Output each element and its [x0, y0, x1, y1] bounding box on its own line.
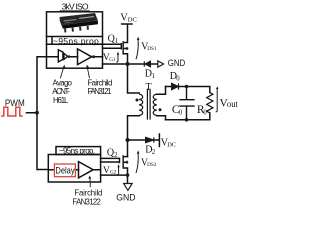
svg-text:2: 2: [152, 149, 156, 156]
svg-text:H61L: H61L: [53, 96, 69, 105]
svg-text:1: 1: [152, 73, 155, 80]
svg-text:FAN3122: FAN3122: [72, 198, 101, 207]
svg-text:G1: G1: [109, 57, 116, 63]
svg-text:DC: DC: [167, 141, 176, 148]
svg-text:DS1: DS1: [147, 46, 157, 52]
svg-text:~95ns prop.: ~95ns prop.: [53, 36, 102, 46]
svg-text:3kV ISO: 3kV ISO: [62, 1, 89, 11]
svg-text:0: 0: [203, 109, 207, 116]
svg-text:Delay: Delay: [55, 165, 74, 176]
svg-text:DC: DC: [128, 17, 138, 24]
svg-text:GND: GND: [168, 58, 186, 68]
svg-text:ACNT-: ACNT-: [52, 87, 70, 96]
svg-text:GND: GND: [116, 192, 135, 203]
svg-text:0: 0: [176, 76, 180, 83]
svg-text:G2: G2: [110, 170, 117, 176]
svg-text:2: 2: [114, 152, 118, 159]
svg-text:DS2: DS2: [147, 162, 157, 168]
svg-text:T: T: [146, 82, 152, 93]
svg-text:PWM: PWM: [5, 98, 25, 108]
svg-text:out: out: [227, 99, 238, 110]
svg-text:V: V: [103, 165, 110, 176]
svg-text:~95ns prop.: ~95ns prop.: [59, 146, 95, 155]
svg-text:FAN3121: FAN3121: [88, 87, 112, 96]
svg-text:0: 0: [179, 109, 183, 116]
svg-text:1: 1: [115, 38, 118, 45]
svg-text:Fairchild: Fairchild: [74, 188, 102, 197]
